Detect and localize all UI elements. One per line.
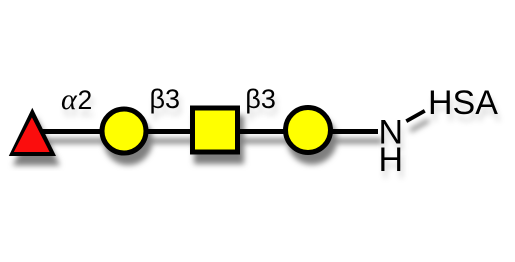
- svg-text:α: α: [61, 83, 78, 116]
- fucose triangle (red): [9, 108, 56, 156]
- wire N to HSA: [406, 111, 425, 121]
- svg-text:β3: β3: [150, 84, 181, 114]
- wire backbone: [40, 129, 378, 134]
- svg-text:β3: β3: [245, 84, 276, 114]
- GalNAc square (yellow): [193, 108, 238, 152]
- svg-text:HSA: HSA: [428, 84, 498, 122]
- svg-text:H: H: [379, 141, 404, 179]
- galactose circle 1 (yellow): [102, 109, 146, 153]
- galactose circle 2 (yellow): [286, 108, 331, 153]
- svg-text:2: 2: [78, 85, 93, 115]
